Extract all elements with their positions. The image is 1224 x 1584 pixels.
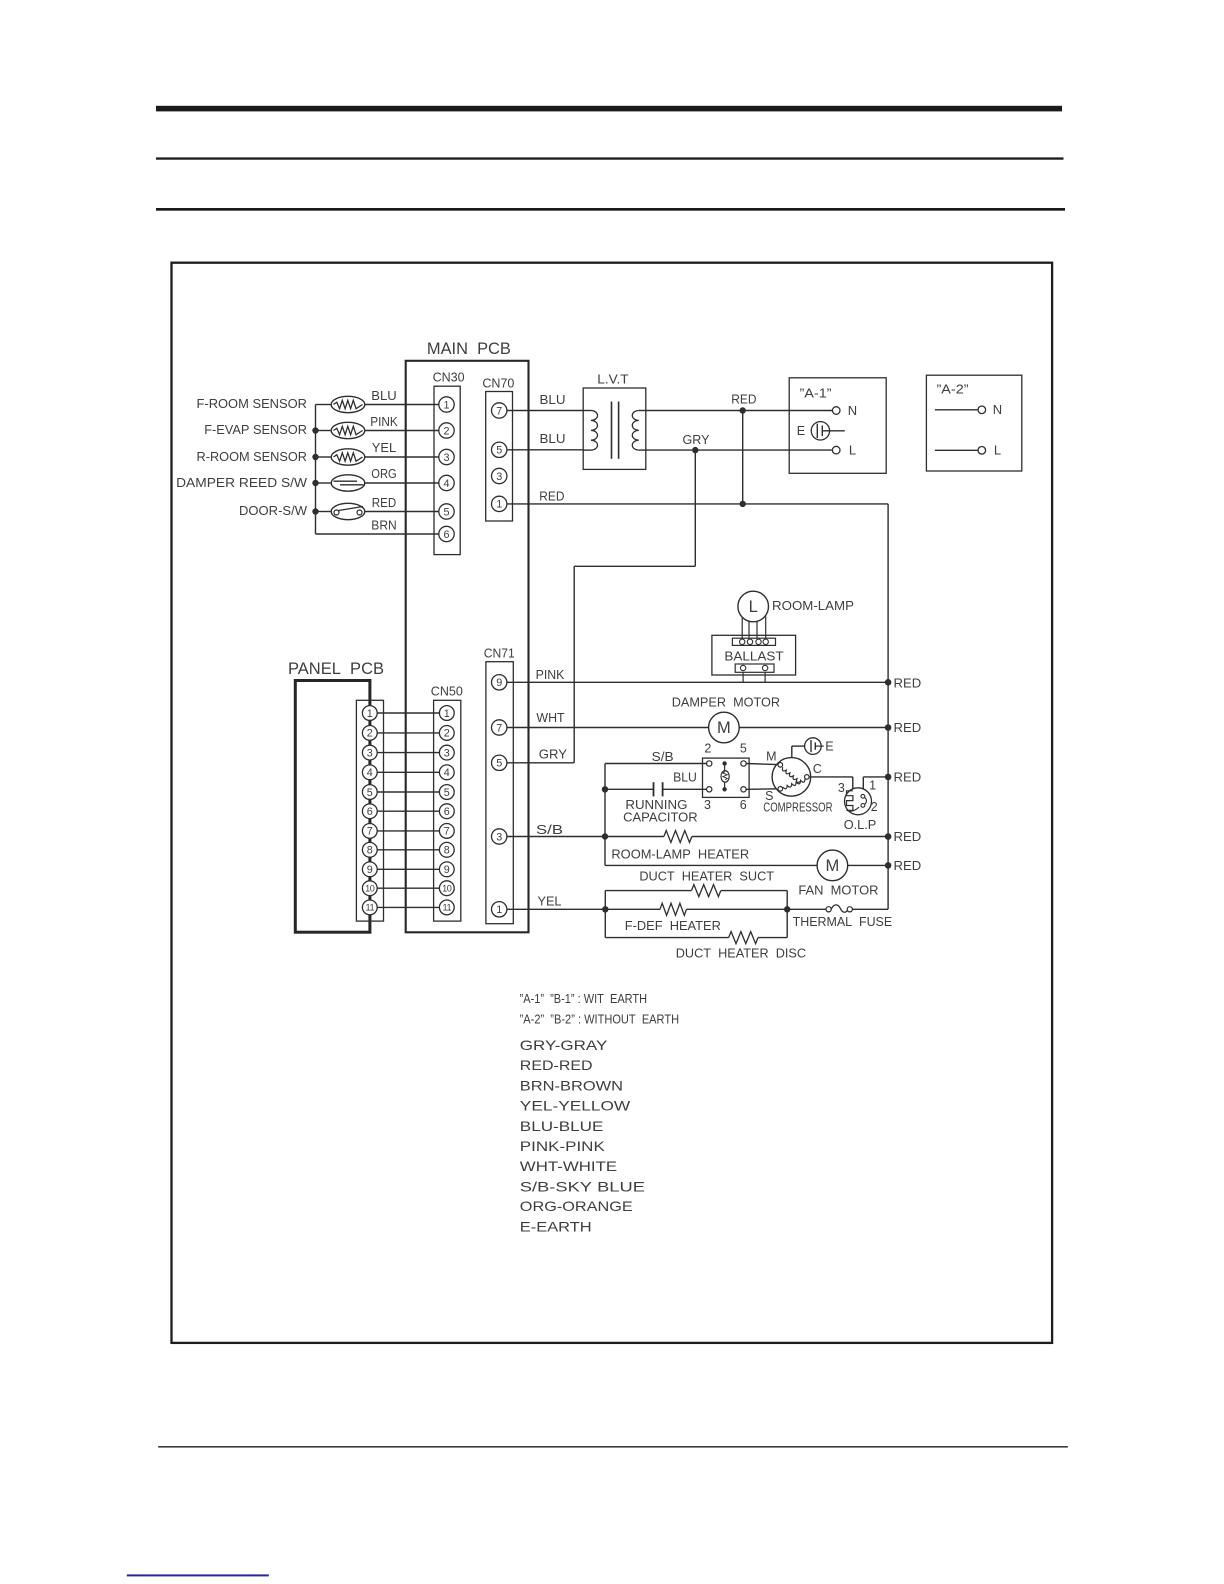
terminal block A-2 (926, 375, 1021, 471)
svg-text:YEL: YEL (538, 894, 562, 909)
svg-text:N: N (848, 403, 857, 418)
resistor ROOM-LAMP HEATER (664, 831, 692, 843)
A-1 L terminal (832, 446, 840, 454)
wire panel-7 to CN50-7 (377, 830, 439, 832)
svg-text:S/B: S/B (652, 749, 674, 764)
CN70 pin 5 (492, 442, 507, 457)
wire RED LVT to A-1 N (646, 410, 833, 412)
svg-text:BRN-BROWN: BRN-BROWN (520, 1078, 623, 1094)
svg-text:ROOM-LAMP: ROOM-LAMP (772, 598, 854, 613)
svg-text:DUCT HEATER DISC: DUCT HEATER DISC (676, 946, 807, 961)
svg-text:CN71: CN71 (484, 646, 515, 661)
wire panel-4 to CN50-4 (377, 771, 439, 773)
svg-text:F-EVAP SENSOR: F-EVAP SENSOR (204, 422, 307, 437)
svg-text:E: E (797, 424, 805, 438)
svg-text:DUCT HEATER SUCT: DUCT HEATER SUCT (639, 868, 774, 883)
svg-text:BLU: BLU (371, 388, 396, 403)
wire panel-1 to CN50-1 (377, 712, 439, 714)
svg-text:4: 4 (367, 767, 373, 779)
duct heater suct branch (605, 890, 691, 892)
svg-text:11: 11 (443, 903, 452, 913)
svg-text:3: 3 (444, 747, 450, 759)
wire YEL CN71-1 (507, 908, 660, 910)
CN30 pin 6 (439, 526, 454, 541)
fdef left vertical (604, 891, 606, 938)
svg-text:1: 1 (496, 904, 502, 916)
svg-text:C: C (813, 762, 822, 776)
node fdef-left (602, 906, 608, 912)
panel pin 2 (362, 726, 377, 741)
CN30 pin 4 (439, 475, 454, 490)
CN50 pin 6 (439, 804, 454, 819)
svg-text:E-EARTH: E-EARTH (520, 1218, 592, 1234)
svg-text:9: 9 (496, 677, 502, 689)
room lamp L (738, 591, 769, 622)
panel pin 9 (362, 862, 377, 877)
panel pin 5 (362, 785, 377, 800)
wire RED (365, 511, 439, 513)
svg-text:7: 7 (496, 405, 502, 417)
svg-text:2: 2 (443, 425, 449, 437)
wire RED vertical (742, 411, 744, 504)
svg-text:CN50: CN50 (431, 684, 463, 699)
svg-text:5: 5 (444, 787, 450, 799)
svg-text:RED-RED: RED-RED (520, 1057, 593, 1073)
relay pin 6 (741, 787, 746, 792)
LVT secondary coil (639, 410, 646, 412)
ballast bottom terminal strip (735, 664, 774, 672)
wire BLU CN70-7 to LVT (507, 410, 583, 412)
svg-text:6: 6 (444, 806, 450, 818)
svg-text:3: 3 (704, 798, 711, 812)
node fdef-right (784, 906, 790, 912)
svg-text:M: M (766, 750, 776, 764)
svg-text:7: 7 (367, 826, 373, 838)
ballast box (712, 635, 796, 675)
svg-text:DAMPER REED S/W: DAMPER REED S/W (176, 475, 308, 490)
connector CN50 (434, 700, 461, 921)
compressor S terminal (778, 787, 783, 792)
LVT primary coil (583, 410, 591, 412)
junction (312, 427, 318, 433)
resistor F-DEF HEATER (660, 903, 687, 915)
svg-text:RED: RED (894, 676, 922, 691)
wire BRN (316, 533, 439, 535)
wire RED CN70-1 to rail (507, 503, 888, 505)
svg-text:2: 2 (704, 741, 711, 755)
wire PINK (365, 430, 439, 432)
svg-text:BLU: BLU (673, 770, 697, 785)
svg-text:RED: RED (539, 488, 564, 503)
svg-text:ORG: ORG (371, 466, 396, 481)
svg-text:GRY: GRY (683, 432, 710, 447)
svg-text:5: 5 (740, 741, 747, 755)
svg-text:RED: RED (894, 720, 922, 735)
svg-text:PINK: PINK (536, 667, 565, 682)
node rail-olp RED (885, 774, 892, 781)
footer link underline (127, 1574, 269, 1576)
running capacitor (653, 782, 655, 796)
damper motor M (709, 712, 740, 743)
CN30 pin 2 (439, 423, 454, 438)
transformer L.V.T box (583, 388, 646, 469)
svg-text:L: L (994, 443, 1001, 458)
CN50 pin 7 (439, 824, 454, 839)
CN50 pin 5 (439, 785, 454, 800)
svg-text:E: E (825, 739, 833, 753)
svg-text:F-DEF HEATER: F-DEF HEATER (625, 918, 721, 933)
svg-text:1: 1 (443, 399, 449, 411)
wire PINK CN71-9 to rail (507, 681, 888, 683)
CN70 pin 7 (492, 403, 507, 418)
wire S/B CN71-3 (507, 836, 664, 838)
svg-text:1: 1 (496, 499, 502, 511)
svg-text:N: N (993, 402, 1002, 417)
svg-text:M: M (826, 857, 840, 875)
svg-text:1: 1 (869, 779, 876, 793)
connector CN71 (486, 662, 513, 924)
CN50 pin 10 (439, 881, 454, 896)
svg-text:BRN: BRN (371, 518, 396, 533)
svg-text:9: 9 (367, 864, 373, 876)
wire panel-10 to CN50-10 (377, 887, 439, 889)
junction (312, 508, 318, 514)
svg-text:O.L.P: O.L.P (844, 817, 877, 832)
svg-text:”A-1”: ”A-1” (800, 385, 832, 400)
wire ORG (365, 482, 439, 484)
A-2 L terminal (935, 449, 978, 451)
svg-text:5: 5 (496, 758, 502, 770)
svg-text:PANEL PCB: PANEL PCB (288, 660, 384, 678)
overload protector O.L.P (845, 788, 872, 815)
sensor bus wire (315, 405, 317, 535)
LVT core (611, 402, 613, 459)
CN30 pin 3 (439, 449, 454, 464)
header rule 3 (156, 208, 1065, 211)
wire GRY down (694, 450, 696, 566)
svg-text:8: 8 (367, 845, 373, 857)
svg-text:10: 10 (442, 883, 452, 893)
svg-text:THERMAL FUSE: THERMAL FUSE (793, 914, 893, 929)
wire WHT CN71-7 to damper motor (507, 727, 709, 729)
svg-text:”A-2” ”B-2” : WITHOUT EARTH: ”A-2” ”B-2” : WITHOUT EARTH (520, 1012, 680, 1026)
svg-text:7: 7 (496, 722, 502, 734)
compressor earth wire (791, 746, 793, 758)
svg-text:YEL-YELLOW: YEL-YELLOW (520, 1097, 631, 1113)
CN70 pin 3 (492, 468, 507, 483)
svg-text:S/B: S/B (536, 822, 563, 837)
svg-text:COMPRESSOR: COMPRESSOR (763, 801, 832, 815)
RED rail (887, 504, 889, 909)
CN50 pin 9 (439, 862, 454, 877)
header thick rule (156, 106, 1062, 112)
svg-text:11: 11 (366, 903, 375, 913)
svg-text:9: 9 (444, 864, 450, 876)
panel pin 7 (362, 824, 377, 839)
node RED2 (740, 501, 746, 507)
wire panel-3 to CN50-3 (377, 752, 439, 754)
panel pin 10 (362, 881, 377, 896)
CN70 pin 1 (492, 496, 507, 511)
wire panel-5 to CN50-5 (377, 791, 439, 793)
CN50 pin 3 (439, 745, 454, 760)
wire to thermal fuse (787, 908, 826, 910)
panel pin 3 (362, 745, 377, 760)
relay pin 5 (741, 761, 746, 766)
wire panel-11 to CN50-11 (377, 906, 439, 908)
svg-text:3: 3 (496, 471, 502, 483)
svg-text:WHT: WHT (536, 710, 564, 725)
svg-text:ROOM-LAMP HEATER: ROOM-LAMP HEATER (611, 847, 749, 862)
svg-text:RED: RED (894, 858, 922, 873)
svg-text:5: 5 (443, 506, 449, 518)
node GRY (692, 447, 698, 453)
resistor DUCT HEATER SUCT (691, 885, 720, 897)
svg-text:8: 8 (444, 845, 450, 857)
wire S/B to relay (605, 763, 707, 765)
wire BLU CN70-5 to LVT (507, 449, 583, 451)
junction (312, 480, 318, 486)
connector CN30 (434, 386, 460, 554)
svg-text:DOOR-S/W: DOOR-S/W (239, 503, 308, 518)
relay PTC element (722, 761, 726, 765)
panel pin 8 (362, 842, 377, 857)
S/B branch vertical (604, 764, 606, 866)
resistor DUCT HEATER DISC (729, 932, 758, 944)
relay pin 3 (707, 787, 712, 792)
ballast top terminal strip (732, 638, 775, 645)
capacitor lead (605, 788, 654, 790)
svg-text:YEL: YEL (372, 440, 396, 455)
svg-text:3: 3 (367, 747, 373, 759)
wire panel-9 to CN50-9 (377, 868, 439, 870)
svg-text:PINK: PINK (370, 414, 398, 429)
svg-text:L.V.T: L.V.T (597, 372, 628, 387)
svg-text:CN30: CN30 (433, 370, 465, 385)
fan motor M (817, 850, 848, 881)
footer rule (158, 1446, 1068, 1448)
CN30 pin 1 (439, 397, 454, 412)
wire panel-2 to CN50-2 (377, 732, 439, 734)
node S/B branch (602, 833, 608, 839)
svg-text:3: 3 (838, 781, 845, 795)
thermal fuse (826, 907, 831, 912)
CN50 pin 8 (439, 842, 454, 857)
fdef right vertical (786, 891, 788, 938)
CN50 pin 4 (439, 765, 454, 780)
start relay box (703, 758, 750, 797)
svg-text:1: 1 (444, 708, 450, 720)
wire C to OLP-3 (809, 776, 853, 778)
svg-text:DAMPER MOTOR: DAMPER MOTOR (672, 694, 780, 709)
header rule 2 (156, 157, 1064, 159)
A-2 N terminal (935, 409, 978, 411)
CN71 pin 1 (492, 902, 507, 917)
svg-text:4: 4 (444, 767, 450, 779)
panel pin 6 (362, 804, 377, 819)
relay pin 2 (707, 761, 712, 766)
svg-text:6: 6 (740, 798, 747, 812)
svg-text:WHT-WHITE: WHT-WHITE (520, 1158, 617, 1174)
svg-text:R-ROOM SENSOR: R-ROOM SENSOR (197, 449, 308, 464)
CN71 pin 5 (492, 755, 507, 770)
node rail-slb RED (885, 833, 892, 840)
svg-text:RED: RED (731, 391, 756, 406)
panel connector box (356, 700, 383, 921)
schematic outer frame (172, 263, 1053, 1343)
CN71 pin 7 (492, 720, 507, 735)
compressor windings (782, 767, 800, 782)
earth symbol at compressor (805, 738, 822, 755)
connector CN70 (486, 392, 513, 522)
wire fan motor (605, 864, 817, 866)
wire OLP-1 to rail (862, 777, 864, 792)
node rail-damper RED (885, 724, 892, 731)
A-1 N terminal (832, 407, 840, 415)
svg-text:BLU: BLU (540, 431, 566, 446)
terminal block A-1 (789, 378, 886, 474)
ballast output wires (742, 672, 744, 682)
wire GRY LVT to A-1 L (646, 449, 833, 451)
svg-text:7: 7 (444, 826, 450, 838)
svg-text:”A-1” ”B-1” : WIT EARTH: ”A-1” ”B-1” : WIT EARTH (520, 992, 648, 1006)
svg-text:5: 5 (496, 445, 502, 457)
svg-text:L: L (849, 442, 856, 457)
svg-text:F-ROOM SENSOR: F-ROOM SENSOR (197, 396, 308, 411)
MAIN PCB box (406, 361, 529, 933)
panel pin 4 (362, 765, 377, 780)
svg-text:10: 10 (365, 883, 375, 893)
CN50 pin 2 (439, 726, 454, 741)
wire YEL (365, 456, 439, 458)
lamp to ballast wires (741, 617, 743, 638)
CN71 pin 3 (492, 829, 507, 844)
compressor C terminal (805, 775, 810, 780)
panel pin 1 (362, 706, 377, 721)
wire panel-6 to CN50-6 (377, 810, 439, 812)
svg-text:3: 3 (496, 831, 502, 843)
svg-text:ORG-ORANGE: ORG-ORANGE (520, 1198, 633, 1214)
wire BLU (365, 404, 439, 406)
node rail-fan RED (885, 862, 892, 869)
wire relay6 to compressor S (746, 788, 778, 791)
svg-text:GRY-GRAY: GRY-GRAY (520, 1037, 608, 1053)
svg-text:PINK-PINK: PINK-PINK (520, 1138, 606, 1154)
node RED (740, 407, 746, 413)
svg-text:2: 2 (444, 728, 450, 740)
CN50 pin 11 (439, 900, 454, 915)
svg-text:CN70: CN70 (482, 375, 514, 390)
node rail-pink RED (885, 679, 892, 686)
wire damper motor to rail (739, 727, 888, 729)
svg-text:L: L (749, 598, 758, 616)
wire panel-8 to CN50-8 (377, 849, 439, 851)
svg-text:M: M (717, 719, 731, 737)
wire relay5 to compressor M (746, 764, 778, 765)
compressor motor (772, 758, 811, 797)
PANEL PCB box (295, 681, 370, 933)
svg-text:6: 6 (443, 529, 449, 541)
svg-text:BLU: BLU (540, 392, 566, 407)
svg-text:2: 2 (367, 728, 373, 740)
svg-text:5: 5 (367, 787, 373, 799)
svg-text:RED: RED (894, 829, 922, 844)
CN30 pin 5 (439, 504, 454, 519)
svg-text:RED: RED (372, 495, 396, 510)
svg-text:MAIN PCB: MAIN PCB (427, 340, 511, 358)
svg-text:6: 6 (367, 806, 373, 818)
CN50 pin 1 (439, 706, 454, 721)
svg-text:S/B-SKY BLUE: S/B-SKY BLUE (520, 1179, 645, 1195)
svg-text:3: 3 (443, 452, 449, 464)
junction (312, 454, 318, 460)
svg-text:GRY: GRY (539, 747, 568, 762)
duct heater disc branch (605, 937, 728, 939)
svg-text:BLU-BLUE: BLU-BLUE (520, 1118, 604, 1134)
panel pin 11 (362, 900, 377, 915)
svg-text:1: 1 (367, 708, 373, 720)
svg-text:4: 4 (443, 478, 449, 490)
svg-text:”A-2”: ”A-2” (937, 381, 969, 396)
svg-text:CAPACITOR: CAPACITOR (623, 810, 698, 825)
compressor M terminal (778, 763, 783, 768)
wire GRY CN71-5 (507, 762, 574, 764)
node cap (602, 786, 608, 792)
svg-text:RED: RED (894, 770, 922, 785)
CN71 pin 9 (492, 675, 507, 690)
svg-text:BALLAST: BALLAST (724, 649, 783, 664)
svg-text:FAN MOTOR: FAN MOTOR (798, 883, 878, 898)
